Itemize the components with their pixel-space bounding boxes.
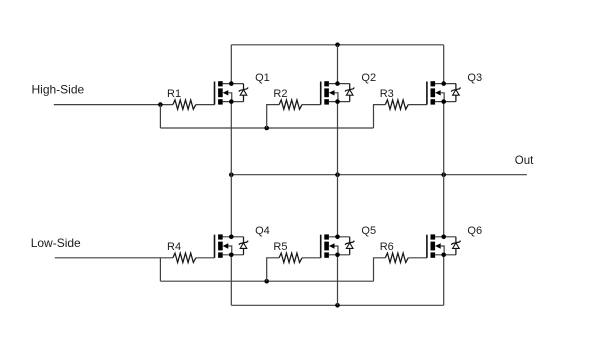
resistor R5	[279, 253, 302, 262]
wire: phase A leg, low-side source to bottom rail	[230, 255, 232, 305]
resistor R3	[385, 100, 408, 109]
wire: phase B leg, top rail to high-side drain	[337, 45, 339, 84]
wire: phase A leg, high-side source to low-side drain (through Out)	[230, 102, 232, 237]
wire: R1 to gate	[196, 104, 215, 106]
wire: gate bus drop	[159, 105, 161, 128]
svg-text:Q6: Q6	[467, 225, 482, 237]
wire: R4 to gate	[196, 257, 215, 259]
svg-text:R2: R2	[273, 88, 287, 100]
transistor Q1 (N-MOSFET with body zener diode)	[215, 81, 249, 104]
wire: phase B leg, high-side source to low-side drain (through Out)	[337, 102, 339, 237]
svg-text:Low-Side: Low-Side	[31, 236, 81, 250]
node: gate bus junction at middle riser	[264, 126, 269, 131]
wire: middle gate riser	[267, 105, 279, 128]
svg-text:R4: R4	[167, 241, 181, 253]
transistor Q6 (N-MOSFET with body zener diode)	[427, 234, 461, 257]
wire: top bus rail	[231, 44, 443, 46]
wire: gate bus run	[160, 280, 373, 282]
svg-text:Q2: Q2	[361, 72, 376, 84]
transistor Q5 (N-MOSFET with body zener diode)	[321, 234, 355, 257]
wire: bottom bus rail	[231, 304, 443, 306]
svg-text:R3: R3	[380, 88, 394, 100]
node: Out junction 2	[335, 172, 340, 177]
resistor R2	[279, 100, 302, 109]
node: Out junction 1	[229, 172, 234, 177]
node: gate bus junction at middle riser	[264, 279, 269, 284]
wire: middle gate riser	[267, 258, 279, 281]
transistor Q2 (N-MOSFET with body zener diode)	[321, 81, 355, 104]
svg-text:Q1: Q1	[255, 72, 270, 84]
wire: phase A leg, top rail to high-side drain	[230, 45, 232, 84]
wire: R3 to gate	[408, 104, 427, 106]
svg-text:R1: R1	[167, 88, 181, 100]
wire: Out net	[231, 174, 527, 176]
wire: phase C leg, high-side source to low-side drain (through Out)	[443, 102, 445, 237]
wire: low-side input feed	[55, 257, 173, 259]
wire: R2 to gate	[302, 104, 321, 106]
resistor R4	[173, 253, 196, 262]
svg-text:Out: Out	[515, 155, 534, 167]
node: top bus junction	[335, 43, 340, 48]
wire: phase C leg, top rail to high-side drain	[443, 45, 445, 84]
wire: gate bus run	[160, 127, 373, 129]
svg-text:R5: R5	[273, 241, 287, 253]
svg-text:R6: R6	[380, 241, 394, 253]
svg-text:Q3: Q3	[467, 72, 482, 84]
svg-text:Q5: Q5	[361, 225, 376, 237]
wire: phase C leg, low-side source to bottom rail	[443, 255, 445, 305]
wire: right gate riser	[374, 105, 386, 128]
wire: gate bus drop	[159, 258, 161, 281]
wire: phase B leg, low-side source to bottom rail	[337, 255, 339, 305]
node: Out junction 3	[441, 172, 446, 177]
wire: right gate riser	[374, 258, 386, 281]
wire: high-side input feed	[54, 104, 173, 106]
resistor R1	[173, 100, 196, 109]
svg-text:High-Side: High-Side	[32, 83, 85, 97]
wire: R5 to gate	[302, 257, 321, 259]
transistor Q4 (N-MOSFET with body zener diode)	[215, 234, 249, 257]
node: high-side feed junction	[158, 102, 163, 107]
node: bottom bus junction	[335, 303, 340, 308]
wire: R6 to gate	[408, 257, 427, 259]
svg-text:Q4: Q4	[255, 225, 270, 237]
resistor R6	[385, 253, 408, 262]
transistor Q3 (N-MOSFET with body zener diode)	[427, 81, 461, 104]
